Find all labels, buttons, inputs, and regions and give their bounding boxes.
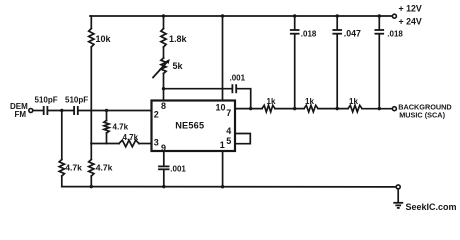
wire terminal to ground symbol bbox=[397, 189, 399, 202]
svg-text:4.7k: 4.7k bbox=[65, 163, 82, 173]
resistor 10k bbox=[89, 29, 94, 48]
svg-text:1.8k: 1.8k bbox=[169, 34, 188, 44]
svg-text:.018: .018 bbox=[301, 30, 317, 39]
svg-text:NE565: NE565 bbox=[175, 120, 204, 130]
svg-text:510pF: 510pF bbox=[35, 96, 58, 105]
svg-text:1k: 1k bbox=[349, 97, 358, 106]
wire pins 4-5 loop bbox=[235, 134, 250, 144]
wire +V top rail bbox=[90, 15, 392, 17]
node rail junction 1.8k bbox=[162, 14, 165, 17]
svg-text:1k: 1k bbox=[305, 97, 314, 106]
potentiometer 5k bbox=[161, 58, 166, 74]
node rail junction .018 bbox=[378, 14, 381, 17]
node rail junction .018 bbox=[293, 14, 296, 17]
svg-text:7: 7 bbox=[226, 108, 231, 118]
capacitor .001 top bbox=[231, 84, 233, 93]
svg-text:3: 3 bbox=[154, 138, 159, 148]
wire rail to pin10 bbox=[222, 16, 224, 101]
node junction caps/4.7k bbox=[60, 109, 63, 112]
node junction pin2/4.7k bbox=[105, 109, 108, 112]
svg-text:+ 24V: + 24V bbox=[399, 16, 422, 26]
svg-text:10: 10 bbox=[216, 103, 226, 113]
wire signal line down bbox=[106, 111, 108, 121]
node DEM FM input terminal bbox=[29, 109, 33, 113]
wire 4.7k to pin3 bbox=[139, 143, 152, 145]
resistor 1k second bbox=[304, 105, 318, 112]
node junction bottom line bbox=[90, 185, 93, 188]
svg-text:1k: 1k bbox=[267, 97, 276, 106]
node output line junction .018 bbox=[293, 107, 296, 110]
svg-text:.001: .001 bbox=[230, 74, 246, 83]
wire cap to output line bbox=[236, 89, 250, 109]
capacitor 510pF first bbox=[43, 106, 45, 115]
wire ground bus bbox=[62, 186, 396, 188]
node +V terminal bbox=[392, 14, 396, 18]
svg-text:MUSIC (SCA): MUSIC (SCA) bbox=[399, 111, 445, 120]
wire C2 to pin2 bbox=[78, 110, 152, 112]
svg-text:10k: 10k bbox=[96, 34, 112, 44]
capacitor 510pF second bbox=[73, 106, 75, 115]
resistor 4.7k vertical branch bbox=[104, 120, 109, 133]
node ground terminal bbox=[396, 185, 400, 189]
svg-text:4.7k: 4.7k bbox=[96, 163, 113, 173]
op-amp U1 NE565 PLL bbox=[152, 101, 236, 152]
svg-text:+ 12V: + 12V bbox=[399, 3, 422, 13]
node junction bottom line pin1 bbox=[221, 185, 224, 188]
wire pin3 line left bbox=[91, 143, 119, 145]
capacitor .018 bbox=[378, 16, 380, 29]
capacitor .018 bbox=[294, 16, 296, 29]
node output line junction .018 bbox=[378, 107, 381, 110]
svg-text:4.7k: 4.7k bbox=[113, 123, 129, 132]
wire pin1 to ground line bbox=[222, 151, 224, 187]
resistor 4.7k lower-left bbox=[59, 160, 64, 177]
wire 10k to pin3 line bbox=[90, 47, 92, 144]
resistor 4.7k lower-mid bbox=[89, 160, 94, 177]
resistor 1k first bbox=[262, 105, 275, 112]
capacitor .001 bottom bbox=[158, 165, 169, 167]
wire 5k to pin8 bbox=[163, 74, 165, 101]
wire pin7 output line bbox=[235, 108, 262, 110]
node junction .001 tap bbox=[162, 87, 165, 90]
ground bbox=[393, 202, 403, 204]
wire from rail down to 10k bbox=[90, 16, 92, 29]
node output line junction .047 bbox=[336, 107, 339, 110]
svg-text:.018: .018 bbox=[387, 30, 403, 39]
node rail junction pin10 bbox=[221, 14, 224, 17]
wire pin3 line down to 4.7k bbox=[90, 144, 92, 160]
svg-text:4: 4 bbox=[226, 126, 231, 136]
svg-text:8: 8 bbox=[161, 101, 166, 111]
wire pin9 down bbox=[163, 151, 165, 166]
svg-text:FM: FM bbox=[15, 110, 27, 119]
wire C1 to C2 bbox=[48, 110, 74, 112]
svg-text:2: 2 bbox=[154, 110, 159, 120]
resistor 1k third bbox=[348, 105, 362, 112]
svg-text:1: 1 bbox=[220, 140, 225, 150]
wire node to 4.7k left bbox=[61, 111, 63, 160]
svg-text:SeekIC.com: SeekIC.com bbox=[406, 202, 457, 212]
node rail junction .047 bbox=[336, 14, 339, 17]
svg-text:510pF: 510pF bbox=[65, 96, 88, 105]
svg-text:.047: .047 bbox=[344, 29, 361, 39]
node junction output line bbox=[249, 107, 252, 110]
wire .001 branch bbox=[164, 88, 232, 90]
svg-text:.001: .001 bbox=[170, 165, 186, 174]
svg-text:5: 5 bbox=[226, 136, 231, 146]
node output terminal bbox=[392, 107, 396, 111]
wire input to C1 bbox=[33, 110, 43, 112]
node junction bottom line pin9 bbox=[162, 185, 165, 188]
resistor 4.7k horizontal bbox=[119, 140, 139, 147]
svg-text:5k: 5k bbox=[173, 61, 184, 71]
resistor 1.8k bbox=[161, 29, 166, 48]
capacitor .047 bbox=[336, 16, 338, 29]
svg-text:4.7k: 4.7k bbox=[123, 133, 139, 142]
